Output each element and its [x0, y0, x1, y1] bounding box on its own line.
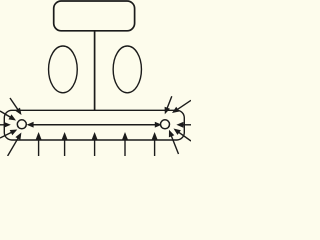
- arrow lower-left at left pin: [0, 130, 17, 139]
- bottom up arrow 5: [152, 132, 158, 156]
- left pin circle: [17, 120, 26, 129]
- arrow upper-right at right pin: [172, 100, 191, 113]
- right pin circle: [161, 120, 170, 129]
- arrow upper-left shallow at left pin: [0, 111, 16, 121]
- arrow horizontal left at left pin: [0, 122, 11, 128]
- beam outline: [4, 110, 184, 140]
- inner double-headed arrow shaft: [27, 122, 162, 128]
- arrow from below slant at right pin: [169, 130, 179, 154]
- tabletop rounded rectangle: [54, 1, 135, 31]
- arrow upper-left steep at left pin: [10, 98, 22, 115]
- arrow horizontal right at right pin: [176, 122, 191, 128]
- bottom up arrow 1: [36, 132, 42, 156]
- bottom up arrow 4: [122, 132, 128, 156]
- left ellipse: [49, 46, 78, 93]
- arrow from top at right pin: [165, 96, 172, 114]
- right ellipse: [113, 46, 141, 93]
- bottom up arrow 3: [92, 132, 98, 156]
- arrow lower-right at right pin: [174, 129, 192, 142]
- bottom up arrow 2: [62, 132, 68, 156]
- arrow from below-left slant at left pin: [8, 133, 22, 157]
- center stem wire: [94, 31, 96, 111]
